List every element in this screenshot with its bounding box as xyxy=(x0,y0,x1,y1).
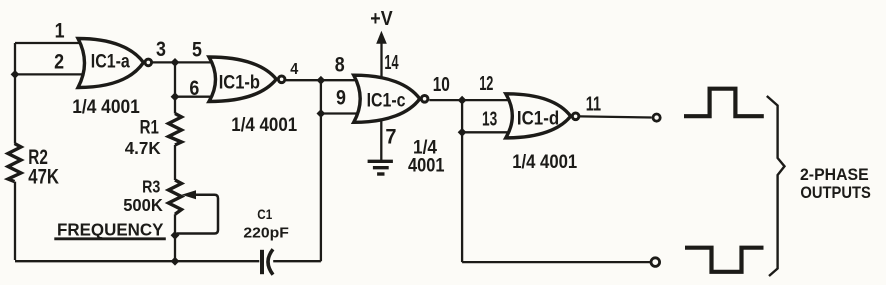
svg-text:8: 8 xyxy=(335,53,345,77)
svg-text:47K: 47K xyxy=(28,166,59,189)
svg-text:11: 11 xyxy=(586,92,602,115)
svg-text:FREQUENCY: FREQUENCY xyxy=(57,219,164,239)
svg-text:1/4 4001: 1/4 4001 xyxy=(512,151,577,172)
svg-text:IC1-a: IC1-a xyxy=(91,50,130,72)
svg-text:4001: 4001 xyxy=(408,154,445,175)
svg-text:IC1-c: IC1-c xyxy=(367,89,406,111)
svg-text:4.7K: 4.7K xyxy=(125,138,161,159)
svg-text:4: 4 xyxy=(290,60,299,78)
svg-text:7: 7 xyxy=(385,125,396,149)
svg-text:R1: R1 xyxy=(140,116,160,138)
svg-text:2: 2 xyxy=(54,50,64,74)
svg-text:1/4 4001: 1/4 4001 xyxy=(72,96,140,117)
svg-text:220pF: 220pF xyxy=(243,225,288,242)
svg-text:1: 1 xyxy=(55,19,65,43)
svg-text:14: 14 xyxy=(384,51,399,74)
svg-text:OUTPUTS: OUTPUTS xyxy=(800,184,870,202)
svg-text:IC1-d: IC1-d xyxy=(517,107,559,128)
svg-text:12: 12 xyxy=(479,72,493,95)
svg-text:2-PHASE: 2-PHASE xyxy=(800,165,869,184)
svg-text:+V: +V xyxy=(370,8,393,30)
svg-text:3: 3 xyxy=(156,38,166,62)
svg-text:500K: 500K xyxy=(123,196,163,215)
svg-text:C1: C1 xyxy=(257,206,272,222)
svg-text:10: 10 xyxy=(433,73,450,95)
svg-text:1/4 4001: 1/4 4001 xyxy=(231,114,297,135)
svg-text:5: 5 xyxy=(192,38,202,62)
svg-text:6: 6 xyxy=(189,77,199,101)
svg-text:R3: R3 xyxy=(142,178,160,197)
svg-text:13: 13 xyxy=(482,108,497,130)
svg-text:IC1-b: IC1-b xyxy=(219,71,260,92)
svg-text:9: 9 xyxy=(336,86,346,110)
